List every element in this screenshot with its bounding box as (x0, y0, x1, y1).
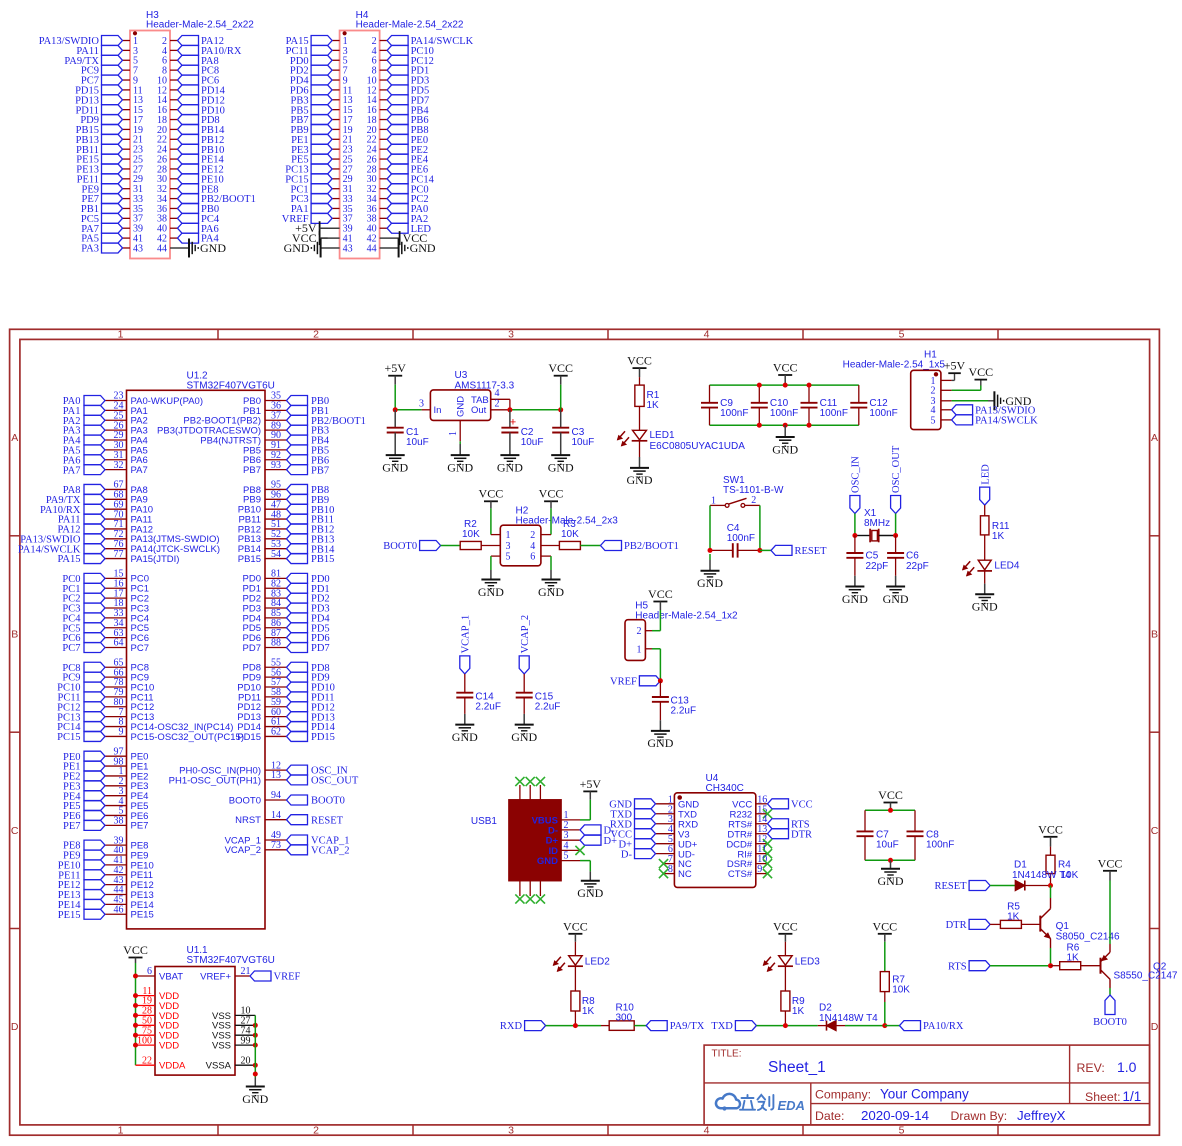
ground below C6 (886, 586, 905, 588)
svg-text:GND: GND (456, 396, 467, 417)
U1.2 pin 15 PC0 (net PC0) (105, 577, 127, 579)
U1.2 pin 93 PB7 (net PB7) (265, 469, 287, 471)
net flag LED (vertical) (980, 487, 990, 505)
svg-text:GND: GND (200, 241, 226, 255)
junction VCC rail (888, 808, 893, 813)
svg-text:73: 73 (271, 840, 281, 851)
svg-text:OSC_OUT: OSC_OUT (891, 445, 902, 493)
svg-text:VCAP_1: VCAP_1 (460, 615, 471, 654)
svg-text:Company:: Company: (815, 1088, 871, 1102)
svg-text:1N4148W T4: 1N4148W T4 (1012, 870, 1071, 881)
ground below U3 (451, 454, 470, 456)
U3 pin 1 GND stub (459, 420, 461, 441)
U1.2 pin 98 PE1 (net PE1) (105, 765, 127, 767)
capacitor C3 10uF (560, 410, 562, 428)
U1.2 pin 58 PD11 (net PD11) (265, 696, 287, 698)
U1.2 pin 57 PD10 (net PD10) (265, 686, 287, 688)
U1.2 pin 47 PB10 (net PB10) (265, 508, 287, 510)
svg-text:4: 4 (704, 329, 710, 341)
USB1 pin 2 D- (561, 829, 580, 831)
svg-text:GND: GND (697, 576, 723, 590)
U1.2 pin 51 PB12 (net PB12) (265, 528, 287, 530)
svg-text:2: 2 (495, 398, 500, 409)
svg-text:1: 1 (118, 329, 124, 341)
svg-text:44: 44 (367, 243, 377, 254)
U1.2 pin 59 PD12 (net PD12) (265, 706, 287, 708)
svg-text:EDA: EDA (778, 1098, 805, 1113)
U1.2 pin 52 PB13 (net PB13) (265, 538, 287, 540)
svg-text:D-: D- (621, 849, 633, 860)
svg-text:4: 4 (495, 388, 500, 399)
svg-text:VDDA: VDDA (159, 1061, 186, 1072)
svg-text:1K: 1K (1067, 953, 1080, 964)
wire USB GND (580, 860, 590, 862)
wire VCC to R7 (884, 942, 886, 972)
svg-text:100nF: 100nF (720, 408, 748, 419)
capacitor C14 2.2uF (456, 692, 473, 694)
svg-text:10uF: 10uF (406, 437, 429, 448)
U1.2 pin 53 PB14 (net PB14) (265, 548, 287, 550)
wire VCC to H2 pin1 (490, 508, 492, 534)
svg-text:2.2uF: 2.2uF (535, 701, 561, 712)
svg-text:PA3: PA3 (81, 244, 99, 255)
svg-text:A: A (1151, 432, 1158, 444)
svg-text:46: 46 (114, 904, 124, 915)
power VCC at H1 pin 2 (952, 389, 981, 391)
svg-text:NC: NC (678, 869, 692, 880)
svg-text:100nF: 100nF (820, 408, 848, 419)
U1.1 pin 20 VSSA (235, 1064, 255, 1066)
svg-text:2: 2 (313, 329, 319, 341)
U1.2 pin 56 PD9 (net PD9) (265, 676, 287, 678)
svg-text:GND: GND (242, 1092, 268, 1106)
wire LED1 to GND (639, 441, 641, 457)
svg-text:VCAP_2: VCAP_2 (225, 845, 261, 856)
svg-text:PC15-OSC32_OUT(PC15): PC15-OSC32_OUT(PC15) (131, 732, 245, 743)
ground below LED1 (630, 467, 649, 469)
LED LED4 (978, 560, 991, 570)
wire R11 to LED4 (984, 535, 986, 560)
svg-text:PA10/RX: PA10/RX (923, 1021, 964, 1032)
resistor R10 300 (609, 1021, 634, 1031)
U1.2 pin 87 PD6 (net PD6) (265, 637, 287, 639)
wire node down to Q1 collector (1050, 886, 1052, 899)
U1.1 pin 11 VDD (136, 995, 156, 997)
svg-text:PE15: PE15 (58, 910, 81, 921)
svg-text:VREF+: VREF+ (200, 971, 231, 982)
U1.2 pin 46 PE15 (net PE15) (105, 913, 127, 915)
svg-text:13: 13 (271, 770, 281, 781)
U1.2 pin 13 PH1-OSC_OUT(PH1) (net OSC_OUT) (265, 779, 287, 781)
svg-text:GND: GND (972, 600, 998, 614)
U1.2 pin 7 PC13 (net PC13) (105, 716, 127, 718)
wire OSC_OUT down to crystal (895, 514, 897, 536)
U1.2 pin 37 PB2-BOOT1(PB2) (net PB2/BOOT1) (265, 419, 287, 421)
U1.2 pin 83 PD2 (net PD2) (265, 597, 287, 599)
U1.2 pin 3 PE4 (net PE4) (105, 795, 127, 797)
svg-text:38: 38 (114, 816, 124, 827)
wire LED flag to R11 (984, 505, 986, 516)
svg-text:PB7: PB7 (311, 465, 329, 476)
U1.1 pin 10 VSS (235, 1014, 255, 1016)
junction C3/VCC (558, 407, 563, 412)
wire R10 to PA9/TX flag (634, 1025, 646, 1027)
power +5V at H1 pin 1 (952, 379, 955, 381)
U1.2 pin 70 PA11 (net PA11) (105, 518, 127, 520)
capacitor C11 100nF (808, 385, 810, 403)
transistor Q1 S8050_C2146 (NPN) (1050, 898, 1052, 909)
svg-text:VDD: VDD (159, 1041, 179, 1052)
net flag DTR (969, 919, 990, 929)
svg-text:9: 9 (119, 727, 124, 738)
wire R3 to PB2/BOOT1 flag (580, 545, 600, 547)
svg-text:GND: GND (883, 592, 909, 606)
U1.1 pin 99 VSS (235, 1044, 255, 1046)
svg-text:LED3: LED3 (795, 956, 820, 967)
svg-text:PB15: PB15 (311, 554, 334, 565)
svg-text:GND: GND (447, 460, 473, 474)
svg-text:PD15: PD15 (311, 732, 335, 743)
wire to RESET flag (760, 549, 771, 551)
svg-text:VCC: VCC (123, 943, 148, 957)
U1.2 pin 40 PE9 (net PE9) (105, 854, 127, 856)
svg-text:VCC: VCC (773, 361, 798, 375)
svg-text:1K: 1K (792, 1006, 805, 1017)
svg-text:PA7: PA7 (131, 465, 148, 476)
U1.2 pin 65 PC8 (net PC8) (105, 666, 127, 668)
resistor R2 10K (460, 541, 481, 549)
U1.1 pin 6 VBAT (136, 975, 156, 977)
wire H2 pin6 to GND (541, 555, 551, 557)
svg-text:2.2uF: 2.2uF (671, 706, 697, 717)
svg-text:VCC: VCC (878, 788, 903, 802)
svg-text:VCC: VCC (1038, 822, 1063, 836)
wire R5 to Q1 base (1021, 923, 1040, 925)
svg-text:10uF: 10uF (572, 437, 595, 448)
svg-text:GND: GND (627, 473, 653, 487)
svg-text:R4: R4 (1058, 860, 1071, 871)
wire DTR to R5 (990, 923, 1000, 925)
U1.2 pin 73 VCAP_2 (net VCAP_2) (265, 849, 287, 851)
svg-text:1K: 1K (647, 400, 660, 411)
resistor R1 1K (639, 377, 641, 385)
svg-text:BOOT0: BOOT0 (229, 795, 261, 806)
U1.2 pin 61 PD14 (net PD14) (265, 726, 287, 728)
svg-text:RESET: RESET (935, 881, 968, 892)
U1.2 pin 55 PD8 (net PD8) (265, 666, 287, 668)
net flag TXD (735, 1021, 756, 1031)
resistor R4 10K (1050, 847, 1052, 856)
net flag RXD (525, 1021, 546, 1031)
wire node to PA10/RX flag (885, 1025, 900, 1027)
wire VCAP_1 to C14 (464, 674, 466, 693)
wire decoupling bottom rail (710, 424, 859, 426)
net flag D+ at USB (580, 835, 601, 845)
svg-text:GND: GND (842, 592, 868, 606)
svg-text:1N4148W T4: 1N4148W T4 (819, 1013, 878, 1024)
U1.1 pin 74 VSS (235, 1034, 255, 1036)
junction SW1/C4 right (757, 548, 762, 553)
svg-text:10K: 10K (561, 529, 579, 540)
U1.2 pin 71 PA12 (net PA12) (105, 528, 127, 530)
svg-text:GND: GND (478, 585, 504, 599)
U1.2 pin 97 PE0 (net PE0) (105, 755, 127, 757)
svg-text:PE15: PE15 (131, 910, 154, 921)
resistor R11 1K (980, 516, 989, 535)
svg-text:VREF: VREF (610, 676, 637, 687)
svg-text:Date:: Date: (815, 1109, 844, 1123)
U1.1 pin 28 VDD (136, 1014, 156, 1016)
svg-text:300: 300 (616, 1013, 633, 1024)
svg-text:93: 93 (271, 460, 281, 471)
ground below U1.1 (246, 1086, 265, 1088)
svg-text:OSC_IN: OSC_IN (851, 456, 862, 493)
svg-text:21: 21 (241, 966, 251, 977)
svg-text:6: 6 (147, 966, 152, 977)
svg-text:GND: GND (577, 886, 603, 900)
svg-text:VREF: VREF (274, 972, 301, 983)
U1.2 pin 62 PD15 (net PD15) (265, 735, 287, 737)
wire +5V to C1/U3 In (394, 385, 396, 410)
U1.2 pin 63 PC6 (net PC6) (105, 637, 127, 639)
svg-text:TXD: TXD (711, 1021, 733, 1032)
U1.2 pin 18 PC3 (net PC3) (105, 607, 127, 609)
svg-text:BOOT0: BOOT0 (311, 796, 345, 807)
net flag PB2/BOOT1 (601, 541, 622, 551)
svg-text:D1: D1 (1014, 860, 1027, 871)
svg-text:1: 1 (448, 431, 459, 436)
U1.2 pin 86 PD5 (net PD5) (265, 627, 287, 629)
sheet border frame (10, 329, 1160, 1135)
U1.2 pin 1 PE2 (net PE2) (105, 775, 127, 777)
wire RTS to node (990, 965, 1050, 967)
resistor R8 1K (571, 991, 580, 1011)
wire VCC to VBAT/VDD/VDDA rail (135, 963, 137, 1065)
svg-text:RXD: RXD (500, 1021, 523, 1032)
svg-text:PH1-OSC_OUT(PH1): PH1-OSC_OUT(PH1) (169, 775, 261, 786)
U1.2 pin 85 PD4 (net PD4) (265, 617, 287, 619)
U1.2 pin 68 PA9 (net PA9/TX) (105, 498, 127, 500)
U1.2 pin 30 PA5 (net PA5) (105, 449, 127, 451)
svg-text:GND: GND (410, 241, 436, 255)
svg-text:+5V: +5V (384, 361, 406, 375)
wire H2 pin4 to R3 (541, 545, 560, 547)
svg-text:5: 5 (506, 552, 511, 563)
U1.2 pin 69 PA10 (net PA10/RX) (105, 508, 127, 510)
svg-text:PA9/TX: PA9/TX (670, 1021, 705, 1032)
svg-text:2: 2 (313, 1125, 319, 1137)
svg-text:VCC: VCC (872, 919, 897, 933)
U1.2 pin 84 PD3 (net PD3) (265, 607, 287, 609)
wire C4 left to GND (709, 554, 711, 560)
svg-text:S8550_C2147: S8550_C2147 (1114, 971, 1178, 982)
wire Out to C2/C3/VCC (510, 409, 561, 411)
svg-text:GND: GND (452, 730, 478, 744)
svg-text:62: 62 (271, 727, 281, 738)
svg-text:Your Company: Your Company (880, 1087, 969, 1102)
net flag VCAP_2 (vertical) (519, 656, 529, 674)
net flag VREF (639, 676, 660, 686)
svg-text:A: A (11, 432, 18, 444)
wire R1 to LED1 (639, 406, 641, 430)
ground below C14 (455, 724, 474, 726)
svg-text:5: 5 (899, 1125, 905, 1137)
USB1 pin 4 ID (561, 849, 580, 851)
U1.2 pin 34 PC5 (net PC5) (105, 627, 127, 629)
svg-text:GND: GND (284, 241, 310, 255)
net flag RESET (to Q1 stage) (969, 881, 990, 891)
svg-text:D: D (1151, 1021, 1159, 1033)
svg-text:5: 5 (899, 329, 905, 341)
svg-text:NRST: NRST (235, 815, 261, 826)
U1.2 pin 81 PD0 (net PD0) (265, 577, 287, 579)
U1.2 pin 25 PA2 (net PA2) (105, 419, 127, 421)
wire BOOT0 to R2 (441, 545, 461, 547)
svg-text:43: 43 (343, 243, 353, 254)
LED LED2 (574, 942, 576, 956)
svg-text:2: 2 (751, 495, 756, 506)
wire H5 pin1 to VREF node (645, 648, 652, 650)
svg-text:6: 6 (530, 552, 535, 563)
svg-text:B: B (11, 628, 18, 640)
svg-text:VCAP_2: VCAP_2 (520, 615, 531, 654)
svg-text:2020-09-14: 2020-09-14 (861, 1108, 929, 1123)
svg-text:1K: 1K (1007, 912, 1020, 923)
ground below C1 (386, 454, 405, 456)
U1.2 pin 44 PE13 (net PE13) (105, 894, 127, 896)
U1.2 pin 2 PE3 (net PE3) (105, 785, 127, 787)
wire H2 pin5 to GND (491, 555, 500, 557)
ground below LED4 (975, 593, 994, 595)
svg-text:32: 32 (114, 460, 124, 471)
U1.2 pin 72 PA13(JTMS-SWDIO) (net PA13/SWDIO) (105, 538, 127, 540)
svg-text:88: 88 (271, 638, 281, 649)
U1.1 pin 21 VREF+ (net VREF) (235, 975, 250, 977)
U1.2 pin 14 NRST (net RESET) (265, 819, 287, 821)
svg-text:99: 99 (241, 1035, 251, 1046)
svg-text:3: 3 (419, 399, 424, 410)
net flag RTS (969, 961, 990, 971)
svg-text:1: 1 (506, 530, 511, 541)
junction TXD/R9 (783, 1023, 788, 1028)
wire VCC to H2 pin2 (550, 508, 552, 534)
svg-text:5: 5 (931, 415, 936, 426)
svg-text:10uF: 10uF (521, 437, 544, 448)
U1.2 pin 45 PE14 (net PE14) (105, 903, 127, 905)
svg-text:3: 3 (506, 541, 511, 552)
U1.1 pin 100 VDD (136, 1044, 156, 1046)
svg-text:PA15(JTDI): PA15(JTDI) (131, 554, 180, 565)
svg-text:TITLE:: TITLE: (712, 1049, 742, 1060)
junction SW1/C4 left (708, 548, 713, 553)
USB1 shield stubs top (519, 785, 521, 800)
U1.2 pin 41 PE10 (net PE10) (105, 864, 127, 866)
U1.2 pin 17 PC2 (net PC2) (105, 597, 127, 599)
svg-text:JeffreyX: JeffreyX (1017, 1108, 1066, 1123)
svg-text:PA7: PA7 (63, 465, 81, 476)
svg-text:Out: Out (471, 405, 487, 416)
svg-text:GND: GND (497, 460, 523, 474)
svg-text:OSC_OUT: OSC_OUT (311, 776, 359, 787)
wire D1 to node (1025, 885, 1051, 887)
junction OSC_OUT/C6 (893, 533, 898, 538)
ground below H2 pin6 (542, 579, 561, 581)
wire C7/C8 bottom rail (865, 859, 915, 861)
U1.2 pin 36 PB1 (net PB1) (265, 409, 287, 411)
wire VSS rail to GND (254, 1015, 256, 1077)
U1.2 pin 88 PD7 (net PD7) (265, 647, 287, 649)
svg-text:22pF: 22pF (906, 561, 929, 572)
junctions on decoupling rails (757, 383, 762, 388)
net flag OSC_OUT (vertical) (891, 496, 901, 514)
U1.2 pin 82 PD1 (net PD1) (265, 587, 287, 589)
svg-text:PE7: PE7 (131, 821, 149, 832)
net flag PA13/SWDIO at H1 pin 4 (952, 405, 973, 415)
svg-text:GND: GND (537, 856, 558, 867)
svg-text:3: 3 (508, 329, 514, 341)
svg-text:VCC: VCC (968, 365, 993, 379)
svg-text:RTS: RTS (948, 961, 967, 972)
svg-text:VBAT: VBAT (159, 971, 183, 982)
svg-text:LED: LED (980, 464, 991, 485)
wire LED4 to GND (984, 571, 986, 584)
capacitor C8 100nF (914, 810, 916, 831)
U1.2 pin 33 PC4 (net PC4) (105, 617, 127, 619)
svg-text:DTR: DTR (791, 829, 812, 840)
wire Q1 emitter to RTS node (1050, 939, 1052, 948)
wire VBUS to +5V (589, 800, 591, 820)
U1.1 pin 75 VDD (136, 1034, 156, 1036)
resistor R3 10K (559, 541, 580, 549)
U1.2 pin 42 PE11 (net PE11) (105, 874, 127, 876)
junction VREF/C13 (658, 678, 663, 683)
wire RXD to R10 (546, 1025, 601, 1027)
net flag PA14/SWCLK at H1 pin 5 (952, 415, 973, 425)
svg-text:+5V: +5V (944, 359, 966, 373)
wire SW1 pin1 down (709, 505, 711, 550)
svg-text:10K: 10K (892, 985, 910, 996)
svg-text:22: 22 (142, 1055, 152, 1066)
USB1 pin 3 D+ (561, 839, 580, 841)
svg-text:PE7: PE7 (63, 821, 81, 832)
svg-text:100nF: 100nF (727, 533, 755, 544)
wire RESET to D1 (990, 885, 1015, 887)
svg-text:100nF: 100nF (770, 408, 798, 419)
U1.2 pin 23 PA0-WKUP(PA0) (net PA0) (105, 400, 127, 402)
wire R9 to TXD node (784, 1011, 786, 1026)
ground at H1 pin 3 (952, 400, 988, 402)
svg-text:VCC: VCC (563, 919, 588, 933)
capacitor C9 100nF (709, 385, 711, 403)
svg-text:GND: GND (548, 460, 574, 474)
U1.2 pin 76 PA14(JTCK-SWCLK) (net PA14/SWCLK) (105, 548, 127, 550)
svg-text:REV:: REV: (1077, 1061, 1105, 1075)
capacitor C10 100nF (758, 385, 760, 403)
svg-text:44: 44 (157, 243, 167, 254)
svg-text:10uF: 10uF (876, 840, 899, 851)
svg-text:VCC: VCC (627, 354, 652, 368)
EasyEDA (LCEDA) logo (716, 1094, 740, 1111)
resistor R9 1K (781, 991, 790, 1011)
U1.2 pin 8 PC14-OSC32_IN(PC14) (net PC14) (105, 726, 127, 728)
svg-text:1: 1 (637, 644, 642, 655)
U1.2 pin 96 PB9 (net PB9) (265, 498, 287, 500)
svg-text:77: 77 (114, 549, 124, 560)
U1.2 pin 66 PC9 (net PC9) (105, 676, 127, 678)
U1.2 pin 48 PB11 (net PB11) (265, 518, 287, 520)
svg-text:GND: GND (647, 736, 673, 750)
capacitor C5 22pF (854, 536, 856, 554)
